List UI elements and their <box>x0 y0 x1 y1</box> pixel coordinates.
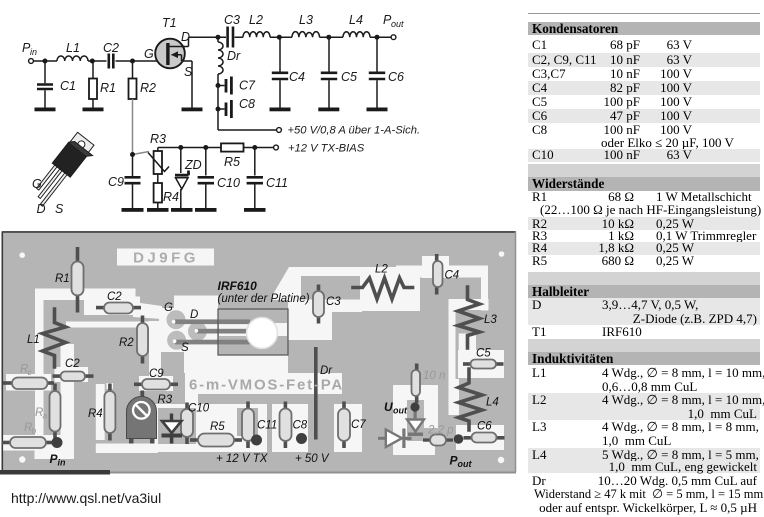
svg-text:10 n: 10 n <box>423 370 445 382</box>
svg-text:+ 12 V TX: + 12 V TX <box>216 453 269 465</box>
svg-text:C3: C3 <box>224 13 240 27</box>
svg-text:R3: R3 <box>158 394 173 406</box>
svg-text:L4: L4 <box>486 397 499 409</box>
svg-text:+12 V TX-BIAS: +12 V TX-BIAS <box>288 143 365 155</box>
svg-text:out: out <box>458 459 473 469</box>
svg-text:DJ9FG: DJ9FG <box>133 250 199 267</box>
svg-text:U: U <box>384 400 393 414</box>
svg-text:G: G <box>32 177 42 191</box>
svg-text:L3: L3 <box>484 314 497 326</box>
svg-text:L2: L2 <box>375 264 388 276</box>
svg-text:R3: R3 <box>150 132 166 146</box>
svg-text:L2: L2 <box>249 13 263 27</box>
svg-text:C4: C4 <box>289 70 305 84</box>
svg-text:C7: C7 <box>351 419 366 431</box>
svg-text:C11: C11 <box>257 420 277 432</box>
svg-text:C8: C8 <box>239 97 255 111</box>
svg-text:C3: C3 <box>326 296 341 308</box>
svg-text:C10: C10 <box>188 403 210 415</box>
svg-text:C8: C8 <box>293 420 308 432</box>
svg-text:in: in <box>58 458 67 468</box>
svg-text:R1: R1 <box>55 273 70 285</box>
svg-text:G: G <box>164 302 173 314</box>
svg-text:in: in <box>30 47 37 57</box>
svg-text:C2: C2 <box>103 41 119 55</box>
svg-text:C10: C10 <box>217 176 240 190</box>
svg-text:L4: L4 <box>349 13 363 27</box>
svg-text:R4: R4 <box>163 190 179 204</box>
svg-text:R2: R2 <box>119 337 134 349</box>
svg-text:C2: C2 <box>107 291 122 303</box>
svg-text:D: D <box>181 30 190 44</box>
svg-text:C6: C6 <box>388 70 404 84</box>
svg-text:R1: R1 <box>100 81 116 95</box>
svg-text:L1: L1 <box>66 41 80 55</box>
svg-text:C5: C5 <box>341 70 357 84</box>
svg-text:S: S <box>184 65 193 79</box>
svg-text:a: a <box>43 411 48 421</box>
svg-text:+50 V/0,8 A über 1-A-Sich.: +50 V/0,8 A über 1-A-Sich. <box>288 125 421 137</box>
svg-text:C9: C9 <box>149 368 164 380</box>
svg-text:Dr: Dr <box>320 365 333 377</box>
svg-text:T1: T1 <box>162 16 177 30</box>
svg-text:C5: C5 <box>476 348 491 360</box>
svg-text:+ 50 V: + 50 V <box>295 453 330 465</box>
svg-text:L3: L3 <box>299 13 313 27</box>
svg-text:C1: C1 <box>60 79 76 93</box>
svg-text:R4: R4 <box>88 408 103 420</box>
svg-text:G: G <box>144 47 154 61</box>
svg-text:6-m-VMOS-Fet-PA: 6-m-VMOS-Fet-PA <box>189 377 344 394</box>
svg-text:C7: C7 <box>239 79 256 93</box>
svg-text:C9: C9 <box>108 175 124 189</box>
svg-text:ZD: ZD <box>184 158 202 172</box>
svg-text:L1: L1 <box>27 334 40 346</box>
svg-text:C6: C6 <box>477 421 492 433</box>
svg-text:out: out <box>391 19 404 29</box>
svg-text:D: D <box>37 202 46 216</box>
svg-text:C2: C2 <box>65 358 80 370</box>
svg-text:Dr: Dr <box>227 49 241 63</box>
svg-text:C11: C11 <box>266 176 288 190</box>
svg-text:D: D <box>190 309 198 321</box>
svg-text:R5: R5 <box>224 155 240 169</box>
svg-text:S: S <box>181 342 189 354</box>
svg-text:R5: R5 <box>210 421 225 433</box>
svg-text:C4: C4 <box>445 270 460 282</box>
svg-text:out: out <box>393 406 408 416</box>
svg-text:2,2 p: 2,2 p <box>427 425 454 437</box>
svg-text:b: b <box>32 426 37 436</box>
svg-text:(unter der Platine): (unter der Platine) <box>218 293 310 305</box>
svg-text:IRF610: IRF610 <box>218 279 258 293</box>
svg-text:R2: R2 <box>140 81 156 95</box>
svg-text:S: S <box>55 202 64 216</box>
